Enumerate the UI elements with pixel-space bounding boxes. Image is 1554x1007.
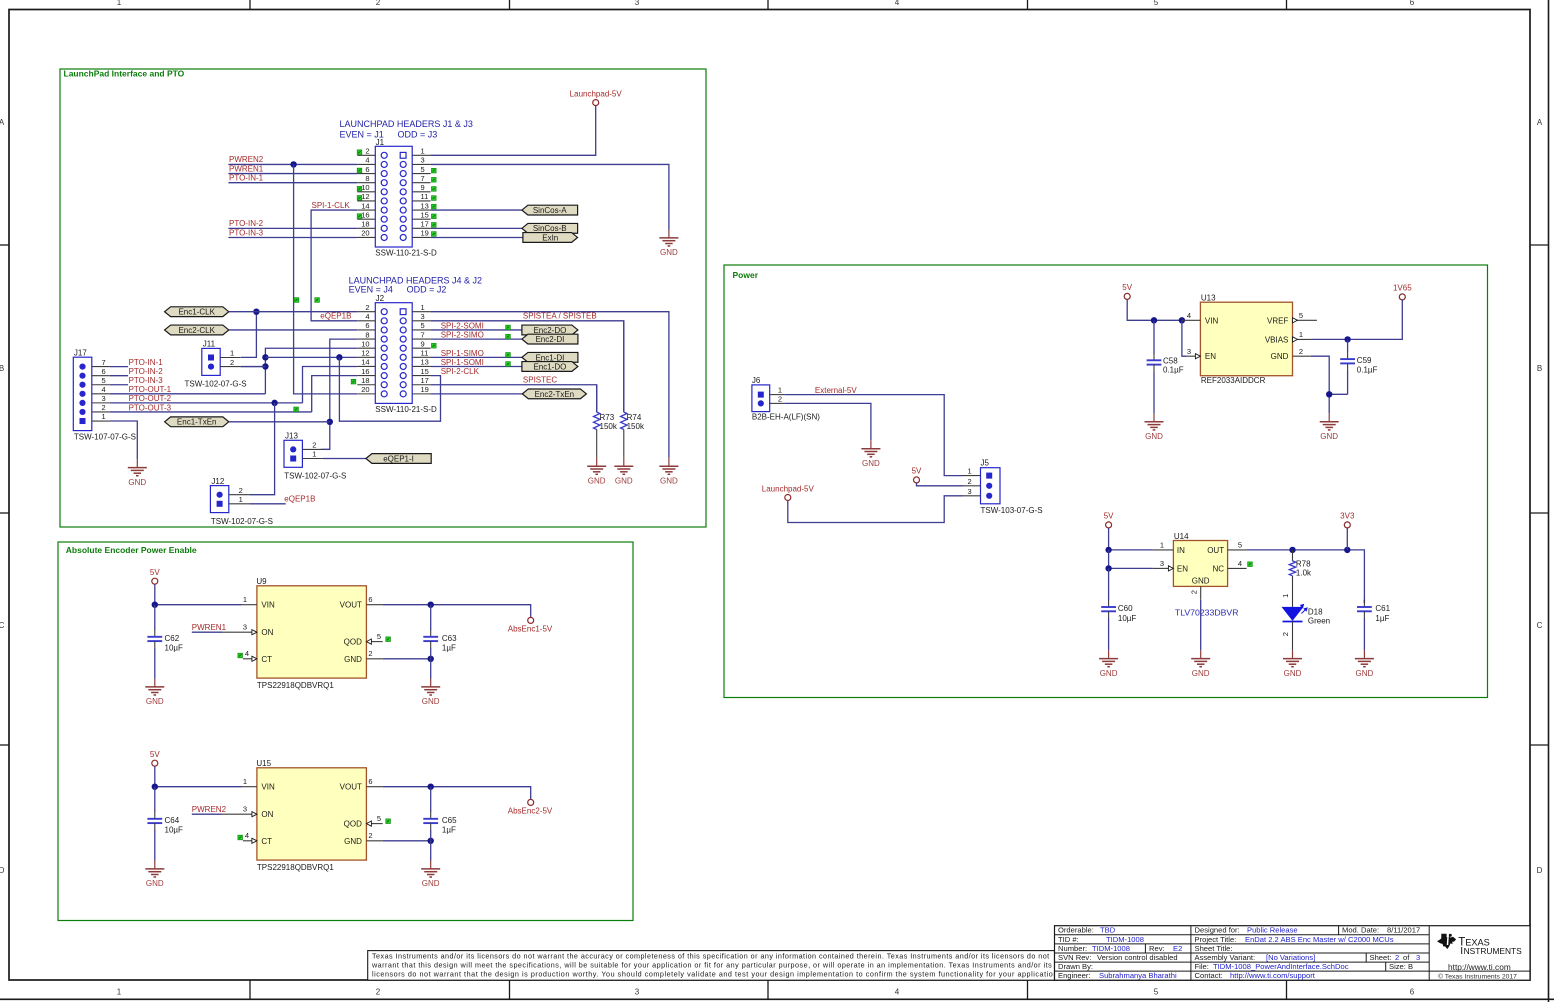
junction 3V3 xyxy=(1344,547,1350,553)
svg-text:1: 1 xyxy=(1281,594,1290,598)
power port 5V at U15 xyxy=(150,750,160,766)
svg-text:ODD = J2: ODD = J2 xyxy=(407,285,447,295)
svg-text:1: 1 xyxy=(102,412,106,421)
svg-text:15: 15 xyxy=(421,210,429,219)
ground under C63 xyxy=(421,679,440,707)
wire SPI-1-CLK from J1 pin 14 xyxy=(311,210,357,321)
svg-text:VIN: VIN xyxy=(261,601,275,610)
header title LAUNCHPAD HEADERS J1 & J3 xyxy=(340,119,473,139)
svg-text:3: 3 xyxy=(421,156,425,165)
svg-text:Enc1-TxEn: Enc1-TxEn xyxy=(177,418,217,427)
svg-text:4: 4 xyxy=(895,0,900,7)
wire PTO-IN-1 stub at J17 xyxy=(110,366,128,368)
svg-text:7: 7 xyxy=(102,358,106,367)
svg-text:http://www.ti.com/support: http://www.ti.com/support xyxy=(1230,971,1316,980)
ground under R74 xyxy=(614,458,633,486)
floating flags above J2 xyxy=(294,298,319,303)
svg-text:EnDat 2.2 ABS Enc Master w/ C2: EnDat 2.2 ABS Enc Master w/ C2000 MCUs xyxy=(1245,935,1394,944)
svg-text:PWREN1: PWREN1 xyxy=(192,623,227,632)
port Enc1-TxEn xyxy=(165,417,229,427)
svg-text:7: 7 xyxy=(421,174,425,183)
svg-text:Assembly Variant:: Assembly Variant: xyxy=(1195,953,1256,962)
resistor R73 xyxy=(594,385,618,458)
section box Power xyxy=(724,265,1488,698)
svg-text:External-5V: External-5V xyxy=(815,386,857,395)
svg-text:TLV70233DBVR: TLV70233DBVR xyxy=(1175,607,1239,617)
svg-text:12: 12 xyxy=(361,192,369,201)
junction U13 GND xyxy=(1326,391,1332,397)
port Enc2-DO xyxy=(522,325,578,335)
svg-text:13: 13 xyxy=(421,201,429,210)
junction on PWREN2 wire xyxy=(290,161,296,167)
svg-text:Mod. Date:: Mod. Date: xyxy=(1342,926,1379,935)
svg-text:OUT: OUT xyxy=(1207,546,1224,555)
svg-text:4: 4 xyxy=(1238,559,1242,568)
svg-text:1: 1 xyxy=(421,303,425,312)
svg-text:Subrahmanya Bharathi: Subrahmanya Bharathi xyxy=(1099,971,1177,980)
svg-text:0.1µF: 0.1µF xyxy=(1357,366,1378,375)
title block table xyxy=(1055,926,1531,981)
svg-text:TPS22918QDBVRQ1: TPS22918QDBVRQ1 xyxy=(257,681,334,690)
svg-text:ExIn: ExIn xyxy=(542,233,558,242)
svg-text:CT: CT xyxy=(261,655,272,664)
svg-text:eQEP1B: eQEP1B xyxy=(320,311,351,320)
svg-text:2: 2 xyxy=(102,403,106,412)
svg-text:VOUT: VOUT xyxy=(340,783,362,792)
wire EN branch of U14 xyxy=(1109,550,1153,569)
svg-text:10: 10 xyxy=(361,339,369,348)
svg-text:R74: R74 xyxy=(627,413,642,422)
flag J2 pin 9 xyxy=(432,343,437,348)
capacitor C63 xyxy=(423,605,457,659)
svg-text:C60: C60 xyxy=(1118,604,1133,613)
svg-text:GND: GND xyxy=(422,697,440,706)
ground under C60 xyxy=(1099,650,1118,678)
svg-text:Enc2-TxEn: Enc2-TxEn xyxy=(535,390,575,399)
svg-text:U9: U9 xyxy=(256,577,267,586)
svg-text:6: 6 xyxy=(1410,988,1415,997)
svg-text:C58: C58 xyxy=(1163,356,1178,365)
ground under C64 xyxy=(145,861,164,889)
svg-text:2: 2 xyxy=(1281,632,1290,636)
ground under J1 pin 3 xyxy=(659,230,678,258)
svg-text:1µF: 1µF xyxy=(442,644,456,653)
svg-text:U14: U14 xyxy=(1174,532,1189,541)
svg-text:1: 1 xyxy=(230,349,234,358)
connector J1 xyxy=(357,138,437,258)
svg-text:eQEP1-I: eQEP1-I xyxy=(383,454,414,463)
svg-text:5: 5 xyxy=(377,814,381,823)
wire SPISTEA to R74 xyxy=(431,321,624,412)
power port AbsEnc1-5V xyxy=(508,617,553,633)
wire PWREN2 to J1 pin 4 xyxy=(228,163,357,165)
wire VOUT to AbsEnc1-5V xyxy=(383,605,531,618)
svg-text:1: 1 xyxy=(243,595,247,604)
flag on PTO-OUT-3 wire xyxy=(294,407,299,412)
svg-text:8: 8 xyxy=(365,330,369,339)
svg-text:GND: GND xyxy=(660,248,678,257)
svg-text:GND: GND xyxy=(1284,669,1302,678)
svg-text:3: 3 xyxy=(243,623,247,632)
IC U14 TLV70233DBVR xyxy=(1153,532,1247,600)
svg-text:3V3: 3V3 xyxy=(1340,512,1355,521)
svg-text:B: B xyxy=(0,364,4,373)
svg-text:GND: GND xyxy=(1192,576,1210,585)
svg-text:B: B xyxy=(1537,364,1542,373)
wire C to ground xyxy=(430,841,432,861)
svg-text:Version control disabled: Version control disabled xyxy=(1097,953,1178,962)
junction VOUT/C output xyxy=(428,784,434,790)
svg-text:© Texas Instruments 2017: © Texas Instruments 2017 xyxy=(1438,973,1517,981)
ground under C61 xyxy=(1355,650,1374,678)
no-ERC flags on J1 right pins xyxy=(432,168,437,236)
svg-text:3: 3 xyxy=(243,805,247,814)
wire J2 pin 13 to Enc1-DO xyxy=(431,365,522,367)
svg-text:SPISTEA / SPISTEB: SPISTEA / SPISTEB xyxy=(523,311,597,320)
junction GND/C output xyxy=(428,838,434,844)
svg-text:1: 1 xyxy=(968,467,972,476)
svg-text:E2: E2 xyxy=(1173,944,1182,953)
svg-text:SPISTEC: SPISTEC xyxy=(523,375,557,384)
svg-text:2: 2 xyxy=(968,477,972,486)
svg-text:LAUNCHPAD HEADERS J1 & J3: LAUNCHPAD HEADERS J1 & J3 xyxy=(340,119,473,129)
svg-text:1: 1 xyxy=(312,450,316,459)
svg-text:5: 5 xyxy=(1154,988,1159,997)
svg-text:REF2033AIDDCR: REF2033AIDDCR xyxy=(1201,376,1266,385)
svg-text:GND: GND xyxy=(128,478,146,487)
svg-text:J5: J5 xyxy=(981,459,990,468)
svg-text:8: 8 xyxy=(365,174,369,183)
svg-text:J12: J12 xyxy=(211,477,224,486)
wire J1 pin 3 to GND xyxy=(431,164,669,229)
svg-text:1V65: 1V65 xyxy=(1393,284,1412,293)
wire PTO-OUT-3 xyxy=(110,411,312,413)
svg-text:TIDM-1008: TIDM-1008 xyxy=(1092,944,1130,953)
wire J12 pin 1 eQEP1B stub xyxy=(249,503,286,505)
svg-text:File:: File: xyxy=(1195,962,1209,971)
wire 5V to U13 VIN xyxy=(1127,299,1182,320)
LED D18 xyxy=(1282,605,1331,626)
wire PWREN2 to ON pin xyxy=(192,813,222,815)
wire J2 pin 1 to GND xyxy=(431,312,669,458)
svg-text:PTO-OUT-3: PTO-OUT-3 xyxy=(129,403,172,412)
junction Enc1-CLK / J11.1 xyxy=(253,309,259,315)
wire OUT rail xyxy=(1247,550,1365,603)
svg-text:GND: GND xyxy=(146,879,164,888)
wire PWREN1 to J1 pin 6 xyxy=(228,173,357,175)
no-ERC flags on J1 left pins xyxy=(357,150,362,219)
svg-text:20: 20 xyxy=(361,385,369,394)
svg-text:Sheet:: Sheet: xyxy=(1370,953,1392,962)
port Enc2-CLK xyxy=(165,325,229,335)
ground under J6 xyxy=(861,440,880,468)
svg-text:3: 3 xyxy=(968,487,972,496)
svg-text:6: 6 xyxy=(1410,0,1415,7)
svg-text:2: 2 xyxy=(376,0,381,7)
svg-text:EN: EN xyxy=(1177,565,1188,574)
svg-text:VIN: VIN xyxy=(1205,316,1219,325)
svg-text:D: D xyxy=(1537,866,1543,875)
svg-text:J13: J13 xyxy=(285,432,298,441)
power port 5V at U14 xyxy=(1104,512,1114,528)
wire VBIAS to 1V65 xyxy=(1311,300,1403,340)
svg-text:2: 2 xyxy=(239,486,243,495)
svg-text:SPI-1-SOMI: SPI-1-SOMI xyxy=(441,358,484,367)
power port 5V at U13 xyxy=(1122,283,1132,299)
power port 5V at J5 xyxy=(912,467,922,483)
wire PTO-OUT-3 riser to J2 pin 16 xyxy=(312,376,358,412)
svg-text:NC: NC xyxy=(1213,565,1225,574)
svg-text:2: 2 xyxy=(365,303,369,312)
svg-text:PTO-OUT-2: PTO-OUT-2 xyxy=(129,394,172,403)
wire C59 bottom to GND branch xyxy=(1329,393,1347,395)
svg-text:SPI-1-SIMO: SPI-1-SIMO xyxy=(441,349,484,358)
power port AbsEnc2-5V xyxy=(508,799,553,815)
svg-text:2: 2 xyxy=(1395,953,1399,962)
svg-text:SinCos-B: SinCos-B xyxy=(533,224,567,233)
svg-text:1: 1 xyxy=(778,386,782,395)
svg-text:licensors do not warrant that: licensors do not warrant that the design… xyxy=(372,969,1060,978)
svg-text:Number:: Number: xyxy=(1058,944,1087,953)
wire Launchpad-5V to J5.3 xyxy=(788,496,963,523)
capacitor C64 xyxy=(147,787,183,861)
svg-text:TIDM-1008: TIDM-1008 xyxy=(1106,935,1144,944)
svg-text:5: 5 xyxy=(421,321,425,330)
svg-text:GND: GND xyxy=(146,697,164,706)
svg-text:VREF: VREF xyxy=(1267,316,1288,325)
wire PTO-OUT-1 vertical to J2 pin 10 xyxy=(265,348,357,394)
svg-text:Enc2-DO: Enc2-DO xyxy=(533,326,566,335)
wire PTO-OUT-1 xyxy=(110,393,266,395)
svg-text:150k: 150k xyxy=(627,422,645,431)
svg-text:10µF: 10µF xyxy=(165,826,184,835)
svg-text:ODD = J3: ODD = J3 xyxy=(398,129,438,139)
svg-text:PTO-IN-1: PTO-IN-1 xyxy=(229,173,264,182)
svg-text:4: 4 xyxy=(365,156,369,165)
wire GND pin of U15 xyxy=(383,840,431,842)
svg-text:TBD: TBD xyxy=(1100,926,1116,935)
capacitor C59 xyxy=(1340,339,1377,394)
svg-text:SPI-1-CLK: SPI-1-CLK xyxy=(312,201,351,210)
svg-text:Enc2-CLK: Enc2-CLK xyxy=(178,326,215,335)
svg-text:18: 18 xyxy=(361,376,369,385)
svg-text:R78: R78 xyxy=(1296,559,1311,568)
junction U14 IN xyxy=(1105,547,1111,553)
svg-text:warrant that this design will: warrant that this design will meet the s… xyxy=(371,960,1052,969)
resistor R78 xyxy=(1289,550,1312,607)
junction 5V/C input xyxy=(152,602,158,608)
svg-text:11: 11 xyxy=(421,192,429,201)
svg-text:Texas Instruments and/or its l: Texas Instruments and/or its licensors d… xyxy=(372,951,1050,960)
wire PWREN2 vertical to J2 pin 20 xyxy=(294,164,358,393)
header title LAUNCHPAD HEADERS J4 & J2 xyxy=(349,275,482,294)
svg-text:EVEN = J4: EVEN = J4 xyxy=(349,285,393,295)
svg-text:1: 1 xyxy=(117,0,122,7)
junction C59 top xyxy=(1344,336,1350,342)
wire LED to ground xyxy=(1292,622,1294,651)
svg-text:0.1µF: 0.1µF xyxy=(1163,366,1184,375)
svg-text:Contact:: Contact: xyxy=(1195,971,1223,980)
svg-text:5: 5 xyxy=(102,376,106,385)
power port 3V3 xyxy=(1340,512,1355,528)
svg-text:11: 11 xyxy=(421,349,429,358)
disclaimer text box xyxy=(368,951,1061,981)
svg-text:2: 2 xyxy=(365,147,369,156)
svg-text:2: 2 xyxy=(230,358,234,367)
svg-text:B2B-EH-A(LF)(SN): B2B-EH-A(LF)(SN) xyxy=(752,412,820,421)
svg-text:4: 4 xyxy=(245,649,249,658)
svg-text:4: 4 xyxy=(1187,311,1191,320)
svg-text:ON: ON xyxy=(261,810,273,819)
svg-text:Power: Power xyxy=(733,270,759,280)
svg-text:Enc1-DO: Enc1-DO xyxy=(533,362,566,371)
svg-text:4: 4 xyxy=(102,385,106,394)
wire Enc2-CLK port to J2 pin 6 xyxy=(229,329,357,331)
wire U14 GND pin to ground xyxy=(1200,600,1202,650)
svg-text:PTO-IN-2: PTO-IN-2 xyxy=(229,219,264,228)
junction V265 row14 xyxy=(262,363,268,369)
svg-text:17: 17 xyxy=(421,376,429,385)
connector J17 xyxy=(73,348,136,441)
wire U13 GND pin down xyxy=(1311,356,1329,413)
wire External-5V J6.1 to J5.1 xyxy=(784,395,962,476)
svg-text:Drawn By:: Drawn By: xyxy=(1058,962,1093,971)
connector J5 xyxy=(963,459,1043,515)
svg-text:J17: J17 xyxy=(74,348,87,357)
svg-text:AbsEnc2-5V: AbsEnc2-5V xyxy=(508,806,553,815)
wire row12 down to J2 pin 15 xyxy=(339,357,440,421)
svg-text:Enc1-CLK: Enc1-CLK xyxy=(178,308,215,317)
ground under J17 xyxy=(128,459,147,487)
svg-text:Enc2-DI: Enc2-DI xyxy=(535,335,564,344)
wire J6.2 to GND xyxy=(784,403,871,440)
svg-text:D18: D18 xyxy=(1308,607,1323,616)
capacitor C65 xyxy=(423,787,457,841)
svg-text:PTO-IN-2: PTO-IN-2 xyxy=(129,367,164,376)
port Enc1-CLK xyxy=(165,307,229,317)
junction PTO-OUT-2 / J12.2 xyxy=(271,400,277,406)
IC U13 REF2033AIDDCR xyxy=(1182,294,1317,386)
svg-text:3: 3 xyxy=(1416,953,1420,962)
wire J11 pin 2 to junction xyxy=(241,366,266,368)
svg-text:19: 19 xyxy=(421,229,429,238)
svg-text:GND: GND xyxy=(344,837,362,846)
port Enc2-DI xyxy=(522,334,578,344)
svg-text:SPI-2-SIMO: SPI-2-SIMO xyxy=(441,330,484,339)
svg-text:GND: GND xyxy=(1145,432,1163,441)
junction VOUT/C output xyxy=(428,602,434,608)
svg-text:LaunchPad Interface and PTO: LaunchPad Interface and PTO xyxy=(64,69,185,79)
svg-text:PTO-IN-1: PTO-IN-1 xyxy=(129,358,164,367)
svg-text:5V: 5V xyxy=(1104,512,1114,521)
svg-text:SPI-2-SOMI: SPI-2-SOMI xyxy=(441,321,484,330)
svg-text:10: 10 xyxy=(361,183,369,192)
svg-text:10µF: 10µF xyxy=(165,644,184,653)
resistor R74 xyxy=(621,321,645,458)
svg-text:TSW-102-07-G-S: TSW-102-07-G-S xyxy=(284,472,346,481)
svg-text:1µF: 1µF xyxy=(442,826,456,835)
svg-text:Enc1-DI: Enc1-DI xyxy=(535,353,564,362)
wire 5V to VIN of U15 xyxy=(155,766,242,787)
wire PTO-OUT-2 xyxy=(110,402,303,404)
wire 3V3 to rail xyxy=(1346,528,1348,550)
flag on QOD pin xyxy=(386,819,391,824)
wire 5V to VIN of U9 xyxy=(155,584,242,605)
capacitor C58 xyxy=(1147,320,1184,413)
flag SPI-1-SOMI xyxy=(506,362,511,367)
wire C to ground xyxy=(430,659,432,679)
power port 5V at U9 xyxy=(150,568,160,584)
svg-text:eQEP1B: eQEP1B xyxy=(284,495,315,504)
flag SPI-2-SIMO xyxy=(506,334,511,339)
svg-text:[No Variations]: [No Variations] xyxy=(1266,953,1315,962)
flag J2 pin 18 xyxy=(351,379,356,384)
svg-text:SSW-110-21-S-D: SSW-110-21-S-D xyxy=(375,249,437,258)
junction EN branch xyxy=(1179,317,1185,323)
section box Absolute Encoder Power Enable xyxy=(58,542,633,921)
svg-text:1µF: 1µF xyxy=(1375,614,1389,623)
connector J12 xyxy=(210,477,273,526)
port Enc1-DI xyxy=(522,352,578,362)
svg-text:6: 6 xyxy=(368,777,372,786)
junction 5V/C input xyxy=(152,784,158,790)
svg-text:4: 4 xyxy=(245,831,249,840)
svg-text:PWREN2: PWREN2 xyxy=(229,155,264,164)
port Enc1-DO xyxy=(522,362,578,372)
svg-text:15: 15 xyxy=(421,367,429,376)
svg-text:12: 12 xyxy=(361,349,369,358)
svg-text:TSW-103-07-G-S: TSW-103-07-G-S xyxy=(981,506,1043,515)
svg-text:3: 3 xyxy=(102,394,106,403)
junction C58 top xyxy=(1151,317,1157,323)
wire PWREN1 to ON pin xyxy=(192,631,222,633)
svg-text:QOD: QOD xyxy=(344,638,362,647)
svg-text:5: 5 xyxy=(421,165,425,174)
svg-text:SinCos-A: SinCos-A xyxy=(533,206,567,215)
wire 5V to J5.2 xyxy=(917,483,963,486)
svg-text:PTO-OUT-1: PTO-OUT-1 xyxy=(129,385,172,394)
svg-text:6: 6 xyxy=(102,367,106,376)
svg-text:6: 6 xyxy=(368,595,372,604)
svg-text:AbsEnc1-5V: AbsEnc1-5V xyxy=(508,624,553,633)
wire J1 pin 17 to SinCos-B port xyxy=(431,227,522,229)
svg-text:Size: B: Size: B xyxy=(1389,962,1413,971)
svg-text:5: 5 xyxy=(1238,541,1242,550)
svg-text:GND: GND xyxy=(1192,669,1210,678)
svg-text:6: 6 xyxy=(365,321,369,330)
ground under D18 xyxy=(1283,650,1302,678)
ground right of R74 xyxy=(659,458,678,486)
connector J13 xyxy=(284,432,346,481)
wire Enc1-TxEn port to junction xyxy=(229,421,330,423)
svg-text:1: 1 xyxy=(239,495,243,504)
svg-text:Sheet Title:: Sheet Title: xyxy=(1195,944,1233,953)
svg-text:R73: R73 xyxy=(600,413,615,422)
svg-text:VOUT: VOUT xyxy=(340,601,362,610)
wire J13 pin 2 up to Enc1-TxEn junction xyxy=(323,448,330,450)
svg-text:5V: 5V xyxy=(150,750,160,759)
svg-text:Engineer:: Engineer: xyxy=(1058,971,1091,980)
flag on CT pin xyxy=(238,835,243,840)
svg-text:C64: C64 xyxy=(165,816,180,825)
svg-text:GND: GND xyxy=(1320,432,1338,441)
svg-text:4: 4 xyxy=(365,312,369,321)
svg-text:C62: C62 xyxy=(165,634,180,643)
svg-text:PWREN1: PWREN1 xyxy=(229,164,264,173)
capacitor C61 xyxy=(1357,600,1391,651)
svg-text:18: 18 xyxy=(361,220,369,229)
wire Enc1-CLK vertical to J11 pin 1 xyxy=(241,312,257,358)
